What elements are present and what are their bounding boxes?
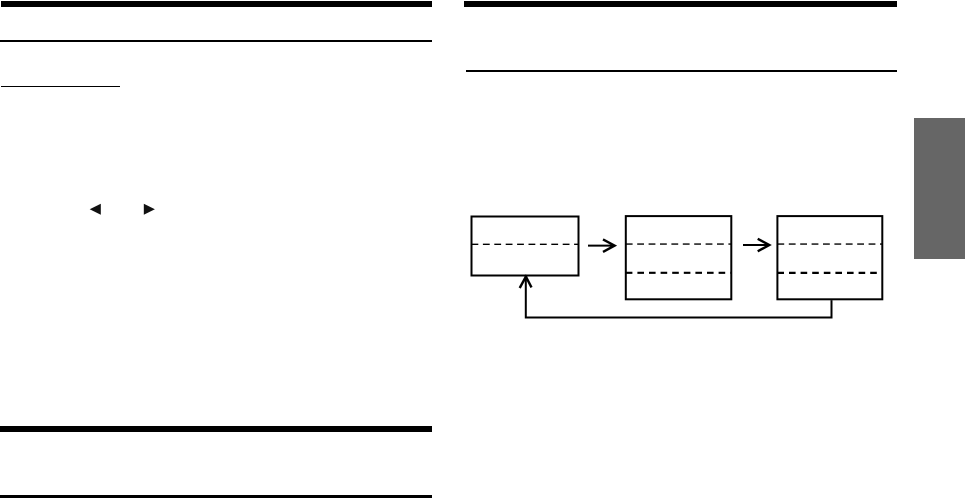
- left-pointing triangle button icon: [90, 204, 101, 215]
- gray side tab right edge: [914, 118, 965, 260]
- header thin rule left column: [0, 40, 432, 42]
- footer thick bar left column: [0, 426, 432, 432]
- flow box 1: [472, 217, 579, 276]
- arrow from box 1 to box 2: [588, 239, 615, 252]
- short section underline left column: [1, 86, 121, 87]
- flow box 3 thin dashed level line: [777, 243, 882, 245]
- flow box 2 thick dashed level line: [626, 272, 732, 274]
- flow box 3: [777, 216, 882, 299]
- header thick bar right column: [464, 1, 897, 6]
- footer thin rule left column: [0, 495, 432, 497]
- flow box 1 thin dashed level line: [472, 243, 579, 245]
- flow box 2: [626, 216, 732, 299]
- feedback return wire from box 3 bottom to box 1 bottom: [526, 277, 832, 318]
- flow box 3 thick dashed level line: [777, 272, 882, 274]
- header thin rule right column: [466, 70, 898, 72]
- flow box 2 thin dashed level line: [626, 243, 732, 245]
- feedback arrowhead pointing up into box 1: [520, 277, 532, 288]
- right-pointing triangle button icon: [144, 204, 155, 215]
- arrow from box 2 to box 3: [743, 239, 769, 252]
- header thick bar left column: [1, 1, 432, 6]
